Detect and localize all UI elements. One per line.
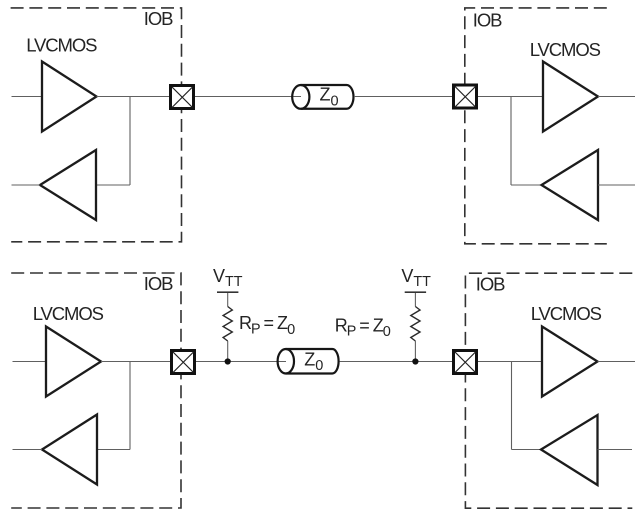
svg-text:LVCMOS: LVCMOS [530,39,601,60]
IOB boundary box bottom-right [465,273,632,508]
IOB boundary box top-right [465,8,607,244]
wire transmission line to node (bottom-right) [340,361,453,363]
wire pad to buffer (bottom-right) [478,361,542,363]
wire feedback vertical (bottom-left) [129,362,131,450]
wire transmission line to pad (top-right) [354,96,452,98]
wire pad to buffer (top-right) [478,96,543,98]
wire feedback horizontal (bottom-left) [97,449,130,451]
wire node vertical (top-right) [510,97,512,186]
svg-text:IOB: IOB [476,274,505,295]
transmission line Z0 (bottom) [278,349,339,374]
wire driver input (bottom-right) [598,449,633,451]
IOB boundary box top-left [11,8,182,242]
buffer output driver (top-left LVCMOS) [42,62,97,132]
IOB pad bottom-right [454,351,477,374]
buffer input receiver (top-left LVCMOS) [40,150,96,220]
junction node (left) [225,358,231,364]
svg-text:LVCMOS: LVCMOS [33,303,104,324]
wire VTT to resistor (right) [414,293,416,307]
svg-text:IOB: IOB [473,9,502,30]
wire driver input (top-right) [598,184,635,186]
wire resistor to node (left) [227,341,229,362]
wire to driver apex (bottom-right) [512,449,542,451]
buffer output driver (top-right LVCMOS) [542,150,599,220]
transmission line Z0 (top) [292,85,353,109]
wire driver output to pad (bottom-left) [101,361,170,363]
svg-text:LVCMOS: LVCMOS [26,34,97,55]
buffer input receiver (bottom-right LVCMOS) [542,327,598,397]
resistor RP (right) [411,307,420,342]
supply VTT (left) [213,266,243,293]
svg-text:LVCMOS: LVCMOS [531,303,602,324]
buffer output driver (bottom-right LVCMOS) [541,415,598,485]
junction node (right) [412,358,418,364]
IOB boundary box bottom-left [11,273,181,508]
buffer input receiver (top-right LVCMOS) [543,62,598,132]
wire pad to transmission line (top-left) [195,96,301,98]
buffer output driver (bottom-left LVCMOS) [46,327,101,397]
wire receiver output (bottom-left) [13,449,43,451]
supply VTT (right) [401,266,431,293]
resistor RP (left) [223,307,232,342]
wire receiver output (bottom-right) [598,361,636,363]
wire to driver apex (top-right) [511,184,542,186]
wire pad to node (bottom-left) [196,361,286,363]
wire receiver output (top-left) [12,184,41,186]
svg-text:IOB: IOB [144,273,173,294]
wire VTT to resistor (left) [227,293,229,307]
wire feedback horizontal (top-left) [96,184,130,186]
wire driver output to pad (top-left) [97,96,170,98]
wire node vertical (bottom-right) [511,362,513,450]
IOB pad top-right [454,85,477,108]
IOB pad top-left [171,86,194,109]
wire resistor to node (right) [414,341,416,362]
IOB pad bottom-left [172,351,195,374]
wire receiver output (top-right) [598,96,635,98]
svg-text:IOB: IOB [144,8,173,29]
buffer input receiver (bottom-left LVCMOS) [42,415,97,485]
wire feedback vertical (top-left) [129,97,131,186]
wire driver input (top-left) [12,96,43,98]
wire driver input (bottom-left) [13,361,47,363]
